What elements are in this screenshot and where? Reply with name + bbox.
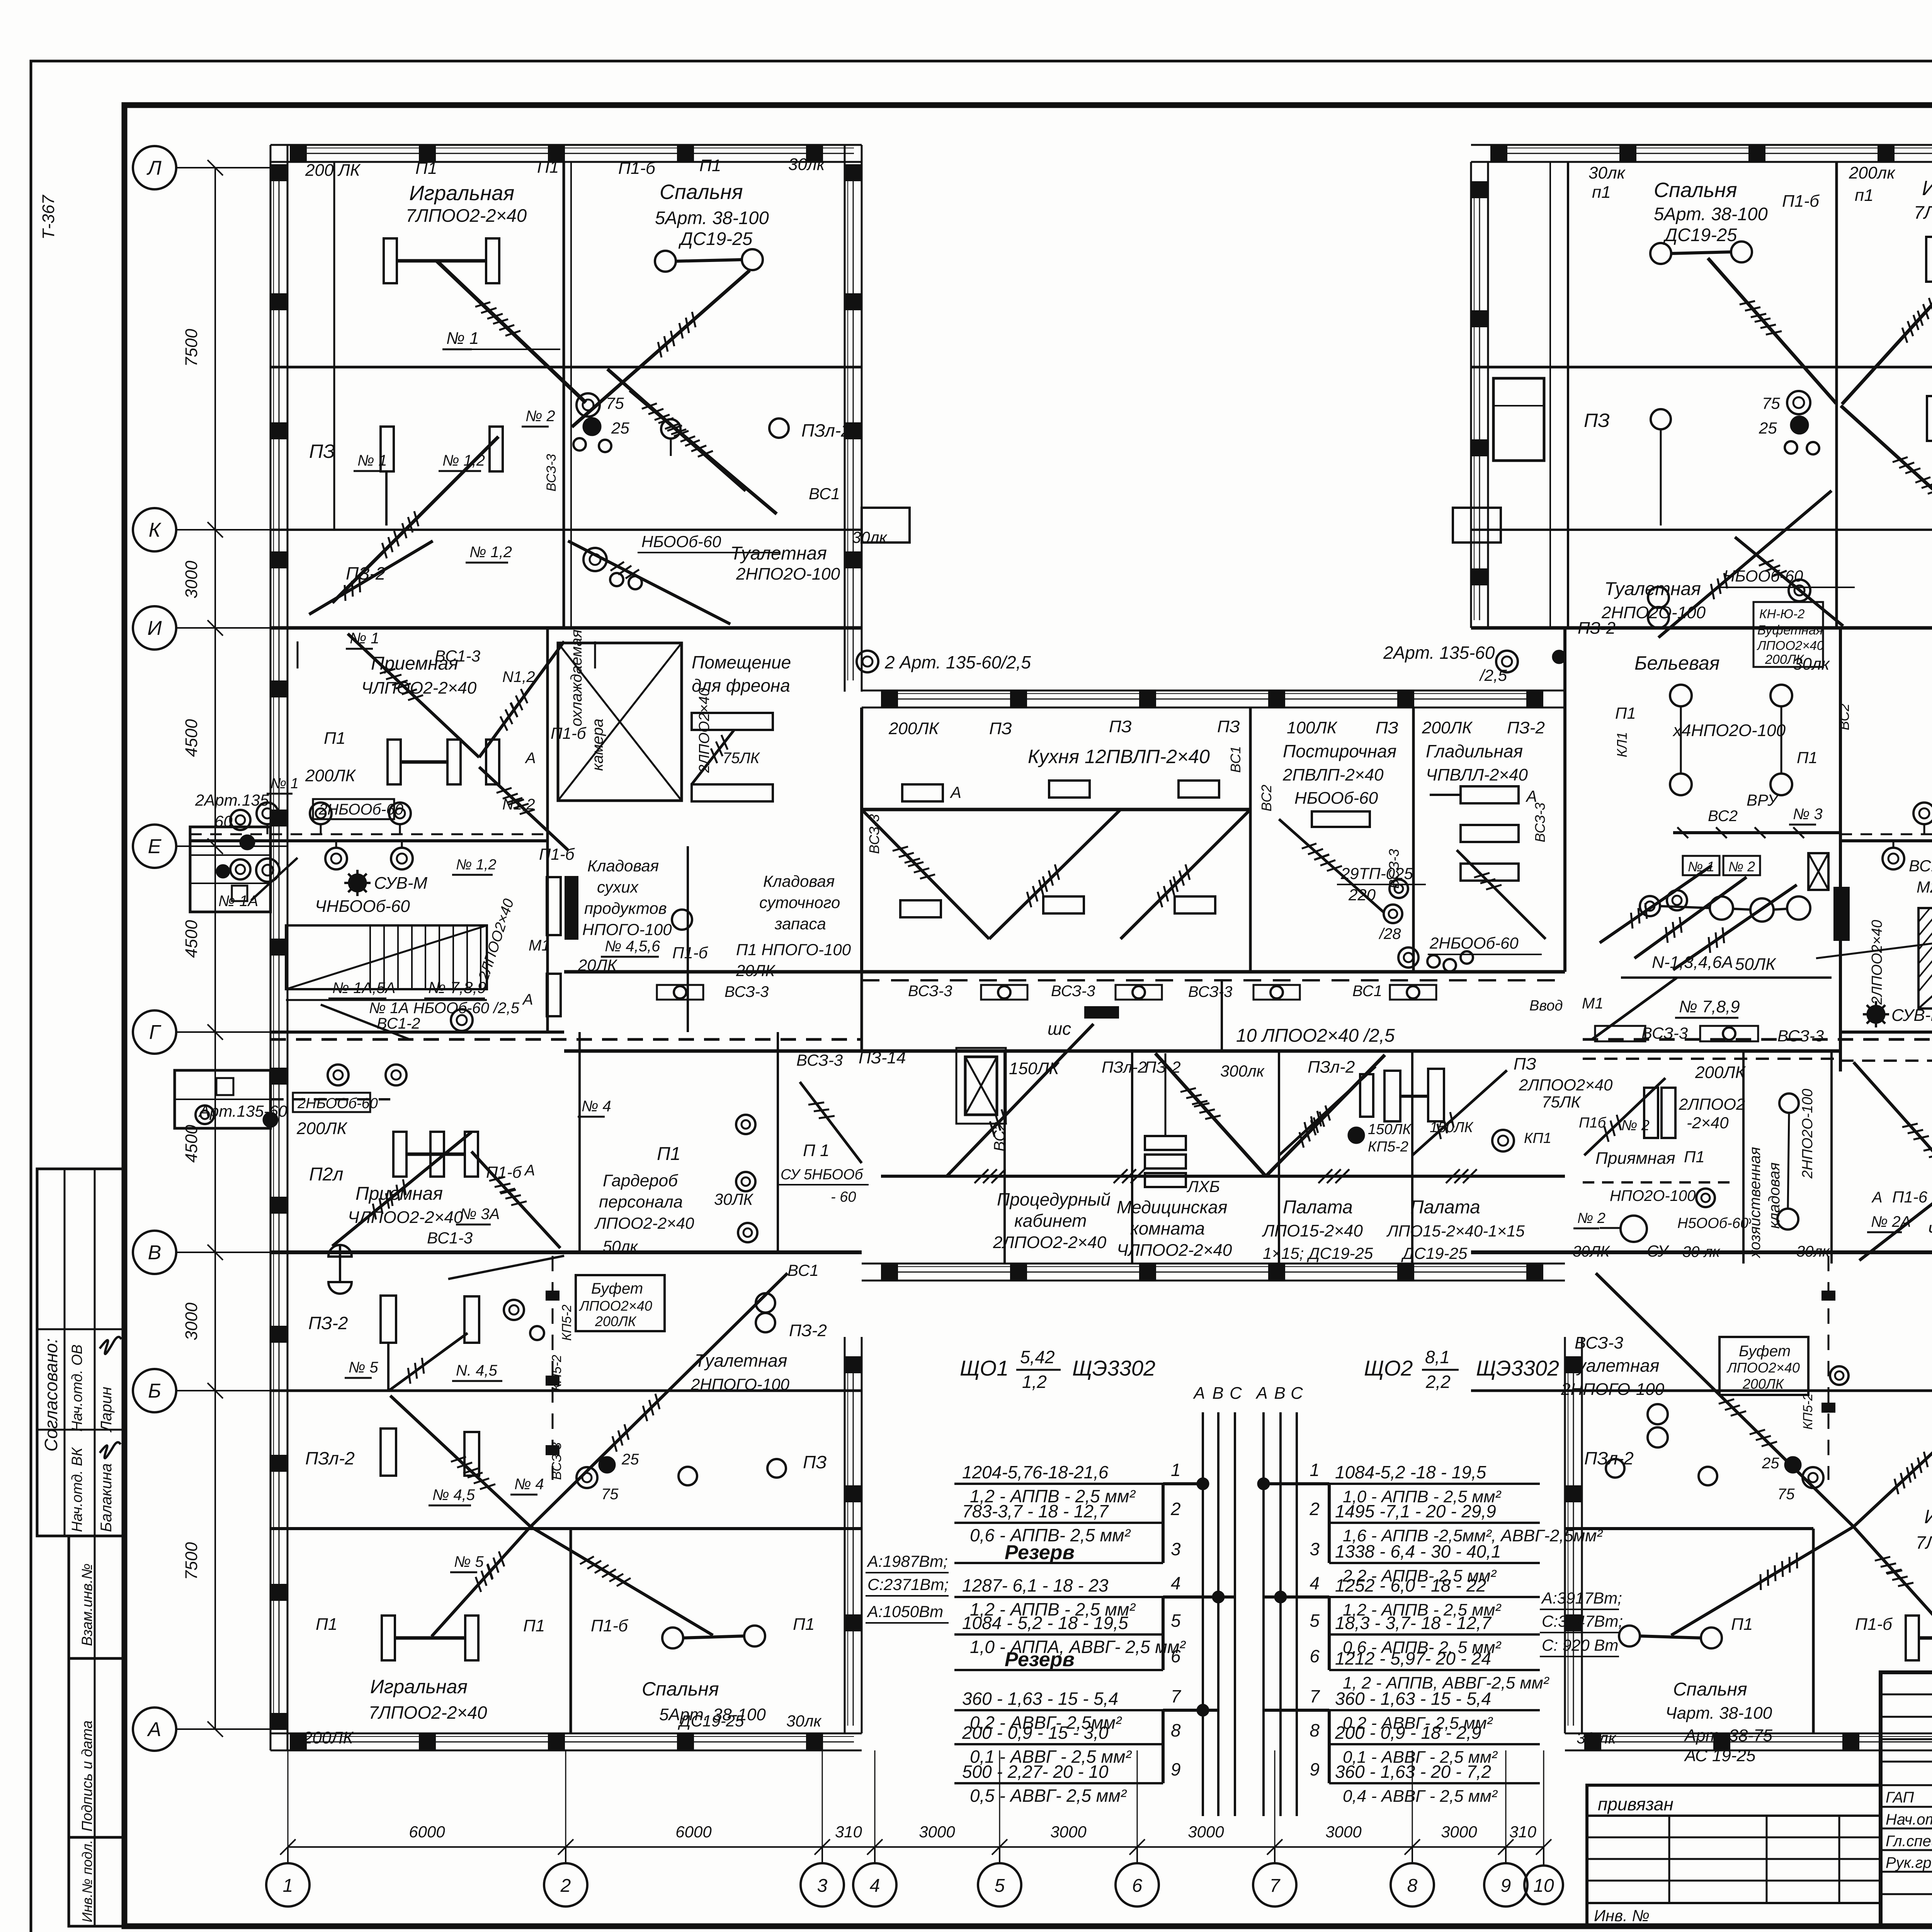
svg-text:25: 25 <box>1759 419 1777 437</box>
elektroshchitovaya room boxes N1 N2 <box>1683 856 1719 875</box>
wiring V В-Б left <box>388 1333 468 1391</box>
exterior wall left wing north <box>270 144 862 146</box>
svg-text:ВСЗ-3: ВСЗ-3 <box>724 983 769 1000</box>
svg-text:№ 2: № 2 <box>1728 859 1755 874</box>
svg-text:75ЛК: 75ЛК <box>723 750 760 767</box>
svg-text:4500: 4500 <box>182 1125 201 1163</box>
svg-text:ПЗл-2: ПЗл-2 <box>1102 1058 1147 1076</box>
svg-text:П1: П1 <box>699 156 721 175</box>
svg-text:200ЛК: 200ЛК <box>1422 718 1473 737</box>
lamps khoz vertical <box>1779 1094 1799 1113</box>
wiring row K left <box>568 541 730 624</box>
svg-text:№ 7,8,9: № 7,8,9 <box>428 978 486 997</box>
svg-text:Инв. №: Инв. № <box>1594 1906 1650 1925</box>
fixture pair Igralnaya bottom-left <box>382 1616 395 1660</box>
svg-text:С: С <box>1230 1384 1242 1403</box>
svg-text:ПЗл-2: ПЗл-2 <box>305 1448 355 1468</box>
partition lower center 2 <box>1278 1051 1280 1264</box>
svg-text:ВСЗ-3: ВСЗ-3 <box>908 983 952 1000</box>
svg-text:Помещение: Помещение <box>692 652 791 672</box>
svg-text:ПЗ: ПЗ <box>1376 718 1398 737</box>
svg-text:ПЗ-2: ПЗ-2 <box>1507 718 1545 737</box>
svg-text:Бельевая: Бельевая <box>1634 652 1720 674</box>
fixtures ПЗ-2 В-Б left <box>381 1296 396 1343</box>
corridor big diagonals <box>947 1024 1094 1176</box>
svg-text:Игральная: Игральная <box>1922 177 1932 200</box>
svg-text:30лк: 30лк <box>852 528 888 546</box>
svg-text:2НБООб-60: 2НБООб-60 <box>1429 934 1519 952</box>
svg-text:ВСЗ-3: ВСЗ-3 <box>796 1051 843 1069</box>
svg-text:П 1: П 1 <box>803 1141 830 1160</box>
buffet room <box>576 1275 665 1331</box>
svg-text:К: К <box>149 519 162 541</box>
svg-text:ПЗ-2: ПЗ-2 <box>1578 619 1616 638</box>
svg-text:8: 8 <box>1171 1720 1181 1740</box>
svg-text:1084 - 5,2 - 18 - 19,5: 1084 - 5,2 - 18 - 19,5 <box>962 1613 1128 1633</box>
svg-text:х4НПО2О-100: х4НПО2О-100 <box>1672 721 1786 740</box>
svg-text:Согласовано:: Согласовано: <box>41 1338 61 1451</box>
partition x1500 Г-В <box>578 1032 581 1252</box>
svg-text:А: А <box>524 1162 535 1179</box>
luminaire cluster 75-25 TL <box>577 393 600 417</box>
svg-text:П1-б: П1-б <box>618 159 656 178</box>
svg-text:Приямная: Приямная <box>1595 1149 1675 1168</box>
svg-text:ВС1-3: ВС1-3 <box>427 1229 473 1247</box>
svg-text:С: 920 Вт: С: 920 Вт <box>1542 1636 1618 1654</box>
svg-text:П1-б: П1-б <box>1855 1615 1893 1634</box>
svg-text:ПЗ-14: ПЗ-14 <box>859 1048 906 1067</box>
svg-text:1: 1 <box>1310 1460 1320 1480</box>
svg-text:С: С <box>1291 1384 1303 1403</box>
svg-text:2ЛПОО2-2×40: 2ЛПОО2-2×40 <box>993 1233 1107 1252</box>
svg-text:Гардероб: Гардероб <box>603 1171 679 1190</box>
wiring X Priyemnaya left <box>348 634 479 757</box>
stamp box Vzam inv <box>69 1536 124 1658</box>
svg-text:Гл.спец.: Гл.спец. <box>1886 1833 1932 1850</box>
svg-text:25: 25 <box>1762 1455 1779 1472</box>
svg-text:№ 1: № 1 <box>357 452 387 469</box>
svg-text:СУВ-М: СУВ-М <box>1891 1006 1932 1025</box>
svg-text:ЩО2: ЩО2 <box>1364 1356 1413 1380</box>
wiring dashed bus right wing <box>1840 1060 1932 1062</box>
svg-text:№ 2: № 2 <box>1577 1210 1605 1226</box>
axis row Е <box>133 825 176 868</box>
svg-text:Спальня: Спальня <box>1654 179 1737 202</box>
partition lower center 0 <box>1003 1051 1006 1264</box>
svg-text:2НПОГО-100: 2НПОГО-100 <box>690 1375 790 1393</box>
svg-text:ВС1: ВС1 <box>1228 746 1243 773</box>
svg-text:ЧЛПОО2-2×40: ЧЛПОО2-2×40 <box>361 679 477 697</box>
svg-text:50ЛК: 50ЛК <box>1735 955 1776 974</box>
exterior wall left wing east lower <box>844 1337 846 1733</box>
svg-text:№ 5: № 5 <box>349 1359 378 1376</box>
partition bottom wing right <box>1812 1529 1815 1733</box>
svg-text:2ЛПОО2×40: 2ЛПОО2×40 <box>1869 920 1885 1005</box>
svg-text:А: А <box>525 750 536 767</box>
svg-text:ВС1-3: ВС1-3 <box>435 647 480 665</box>
svg-text:продуктов: продуктов <box>584 899 667 917</box>
wall split row K left <box>563 530 565 628</box>
svg-text:ЛХБ: ЛХБ <box>1186 1177 1220 1196</box>
svg-text:30лк: 30лк <box>1588 163 1626 182</box>
svg-text:ВСЗ-3: ВСЗ-3 <box>1575 1333 1623 1352</box>
svg-text:18,3 - 3,7- 18 - 12,7: 18,3 - 3,7- 18 - 12,7 <box>1335 1613 1492 1633</box>
svg-text:20ЛК: 20ЛК <box>736 961 776 980</box>
svg-text:30ЛК: 30ЛК <box>1573 1243 1611 1260</box>
svg-text:2НПО2О-100: 2НПО2О-100 <box>736 565 840 583</box>
svg-text:1: 1 <box>1171 1460 1181 1480</box>
svg-text:№ 1А: № 1А <box>218 893 258 910</box>
svg-text:ЩЭ3302: ЩЭ3302 <box>1476 1356 1559 1380</box>
svg-text:2,2: 2,2 <box>1425 1372 1451 1392</box>
main wiring line lower centre <box>881 1175 1565 1178</box>
corridor bus line <box>862 979 1565 981</box>
wall axis Б <box>270 1389 862 1392</box>
svg-text:ЛПОО2×40: ЛПОО2×40 <box>1726 1360 1800 1376</box>
svg-text:Туалетная: Туалетная <box>1567 1355 1659 1376</box>
svg-text:30лк: 30лк <box>1793 655 1830 673</box>
svg-text:9: 9 <box>1171 1759 1181 1779</box>
wall axis Г <box>1840 1031 1932 1034</box>
svg-text:ДС19-25: ДС19-25 <box>678 1712 744 1730</box>
wiring diagonals elektroshchitovaya <box>1600 866 1712 943</box>
stamp box Podpis i data <box>69 1658 124 1837</box>
svg-text:П1-б: П1-б <box>1782 192 1820 211</box>
svg-text:камера: камера <box>589 719 606 771</box>
svg-text:№ 7,8,9: № 7,8,9 <box>1679 997 1740 1016</box>
svg-text:ПЗ: ПЗ <box>1514 1054 1536 1073</box>
svg-text:П1 НПОГО-100: П1 НПОГО-100 <box>736 940 851 959</box>
svg-text:5: 5 <box>995 1876 1005 1896</box>
svg-text:4: 4 <box>870 1876 880 1896</box>
divider double line <box>570 162 572 628</box>
svg-text:сухих: сухих <box>597 878 639 896</box>
svg-text:АС 19-25: АС 19-25 <box>1684 1746 1756 1765</box>
svg-text:310: 310 <box>835 1823 862 1841</box>
svg-text:П1: П1 <box>537 158 559 177</box>
laundry divider <box>1412 707 1415 972</box>
svg-text:2НПОГО-100: 2НПОГО-100 <box>1561 1380 1665 1399</box>
suv-m right <box>1867 1006 1884 1023</box>
svg-text:А:1050Вт: А:1050Вт <box>866 1602 943 1621</box>
svg-text:суточного: суточного <box>759 893 840 912</box>
svg-text:Чарт. 38-100: Чарт. 38-100 <box>1665 1704 1772 1723</box>
svg-text:привязан: привязан <box>1598 1794 1673 1814</box>
svg-text:А: А <box>1525 787 1537 805</box>
svg-text:1338 - 6,4 - 30 - 40,1: 1338 - 6,4 - 30 - 40,1 <box>1335 1541 1501 1561</box>
kitchen fixtures row2 <box>900 900 941 917</box>
partition bottom wings left <box>570 1529 572 1733</box>
vertical dimension line left <box>214 168 216 1729</box>
svg-text:ПЗ: ПЗ <box>803 1452 827 1472</box>
svg-text:360 - 1,63 - 20 - 7,2: 360 - 1,63 - 20 - 7,2 <box>1335 1762 1491 1782</box>
svg-text:ПЗ: ПЗ <box>1584 410 1610 431</box>
wall axis И <box>270 626 862 630</box>
svg-text:П1: П1 <box>523 1616 545 1635</box>
svg-text:ЛПОО2×40: ЛПОО2×40 <box>1757 638 1824 653</box>
svg-text:25: 25 <box>621 1451 639 1468</box>
svg-text:4: 4 <box>1171 1573 1181 1593</box>
svg-text:кабинет: кабинет <box>1014 1211 1087 1231</box>
wall right wing center vertical <box>1839 628 1842 1071</box>
svg-text:3: 3 <box>817 1876 828 1896</box>
wiring row K right <box>1735 537 1843 626</box>
kitchen wall right <box>1249 707 1252 972</box>
svg-text:9: 9 <box>1501 1876 1511 1896</box>
svg-text:1287- 6,1 - 18 - 23: 1287- 6,1 - 18 - 23 <box>962 1575 1109 1595</box>
svg-text:П1: П1 <box>324 729 345 748</box>
signature table <box>1881 1672 1932 1926</box>
corridor dark fixture <box>1084 1006 1119 1019</box>
svg-text:КН-Ю-2: КН-Ю-2 <box>1759 607 1804 621</box>
svg-text:Туалетная: Туалетная <box>695 1350 787 1371</box>
svg-text:№ 4,5,6: № 4,5,6 <box>605 938 660 955</box>
wall bottom wings upper y3956 right <box>1565 1527 1813 1530</box>
right wing inner west wall <box>1567 162 1569 628</box>
fixture pair right small <box>1644 1088 1658 1138</box>
svg-text:1×15; ДС19-25: 1×15; ДС19-25 <box>1263 1244 1373 1262</box>
svg-text:НБООб-60: НБООб-60 <box>1294 789 1378 808</box>
medical fixtures stack <box>1145 1136 1186 1150</box>
svg-text:30лк: 30лк <box>1796 1243 1830 1260</box>
svg-text:Игральная: Игральная <box>370 1676 468 1697</box>
svg-text:№ 1: № 1 <box>270 776 299 792</box>
svg-text:9: 9 <box>1310 1759 1320 1779</box>
svg-text:А: А <box>1255 1384 1267 1403</box>
svg-text:5Арт. 38-100: 5Арт. 38-100 <box>655 207 769 228</box>
svg-text:500 - 2,27- 20 - 10: 500 - 2,27- 20 - 10 <box>962 1762 1109 1782</box>
svg-text:2: 2 <box>560 1876 571 1896</box>
laundry fixture <box>1312 811 1370 827</box>
label 2Арт135-60/2,5 left center <box>857 651 878 672</box>
svg-text:150ЛК: 150ЛК <box>1009 1059 1060 1078</box>
svg-text:ЧПВЛЛ-2×40: ЧПВЛЛ-2×40 <box>1426 765 1528 784</box>
cold chamber box <box>558 643 682 801</box>
horizontal dimension line bottom <box>288 1846 1544 1848</box>
svg-text:25: 25 <box>611 419 629 437</box>
svg-text:- 60: - 60 <box>831 1189 856 1205</box>
svg-text:ПЗл-2: ПЗл-2 <box>801 420 851 440</box>
svg-text:7ЛПОО2-2×40: 7ЛПОО2-2×40 <box>1916 1532 1932 1553</box>
axis row Г <box>133 1010 176 1054</box>
svg-text:1084-5,2 -18 - 19,5: 1084-5,2 -18 - 19,5 <box>1335 1462 1486 1482</box>
svg-text:Буфет: Буфет <box>591 1280 643 1297</box>
porch west at axis Г <box>175 1070 270 1128</box>
svg-text:ЩО1: ЩО1 <box>960 1356 1009 1380</box>
svg-text:П1: П1 <box>1797 748 1818 767</box>
svg-text:кладовая: кладовая <box>1766 1162 1783 1229</box>
svg-text:2НПО2О-100: 2НПО2О-100 <box>1799 1089 1816 1179</box>
wiring diag priyamnaya <box>1584 1078 1665 1155</box>
axis column 10 <box>1524 1866 1563 1904</box>
svg-text:А:3917Вт;: А:3917Вт; <box>1541 1589 1622 1607</box>
bus row Г wall lamps <box>270 1098 390 1100</box>
КП5-2 riser dashed <box>552 1256 554 1480</box>
svg-text:Инв.№ подл.: Инв.№ подл. <box>79 1840 95 1922</box>
svg-text:5: 5 <box>1310 1611 1320 1631</box>
left attachment table <box>1587 1785 1881 1926</box>
cluster 25-75 bottom right <box>1785 1457 1801 1473</box>
stair right wing <box>1918 908 1932 1009</box>
svg-text:П1-б: П1-б <box>591 1616 629 1635</box>
svg-text:Игральная: Игральная <box>409 182 514 205</box>
stairwell left <box>286 925 487 989</box>
svg-text:С:2371Вт;: С:2371Вт; <box>867 1575 949 1594</box>
svg-text:ЛПОО2-2×40: ЛПОО2-2×40 <box>594 1214 694 1232</box>
leader to elektroshchitovaya note <box>1816 902 1932 958</box>
svg-text:Е: Е <box>148 835 162 858</box>
wall upper rooms partition <box>1471 366 1932 369</box>
svg-text:№ 3А: № 3А <box>460 1206 500 1223</box>
svg-text:200 ЛК: 200 ЛК <box>305 161 361 180</box>
exterior wall center south <box>862 1263 1565 1265</box>
svg-text:Рук.гр.: Рук.гр. <box>1886 1854 1932 1871</box>
svg-text:№ 2А: № 2А <box>1871 1213 1911 1230</box>
svg-text:60: 60 <box>214 812 233 830</box>
wall lamp above bus E left <box>257 803 278 824</box>
svg-text:В: В <box>1274 1384 1285 1403</box>
partition lower center 1 <box>1131 1051 1133 1264</box>
svg-text:№ 4: № 4 <box>582 1098 611 1115</box>
svg-text:Приемная: Приемная <box>355 1184 443 1204</box>
luminaire pair Igralnaya top-right <box>1926 237 1932 282</box>
svg-text:Палата: Палата <box>1283 1197 1353 1218</box>
svg-text:ВСЗ-3: ВСЗ-3 <box>1532 803 1548 842</box>
svg-text:П1-б: П1-б <box>551 724 587 742</box>
svg-text:2: 2 <box>1309 1499 1320 1519</box>
luminaire fixtures Priyemnaya left <box>388 740 401 784</box>
svg-text:ДС19-25: ДС19-25 <box>1663 224 1737 245</box>
svg-text:запаса: запаса <box>774 915 826 933</box>
svg-text:200ЛК: 200ЛК <box>296 1119 348 1138</box>
svg-text:8: 8 <box>1310 1720 1320 1740</box>
fixture pair row Г-В left <box>393 1132 406 1177</box>
svg-text:30 лк: 30 лк <box>1577 1729 1617 1747</box>
svg-text:КП5-2: КП5-2 <box>560 1304 574 1341</box>
wall axis Г <box>270 1031 564 1034</box>
svg-text:М2: М2 <box>1917 878 1932 896</box>
svg-text:М1: М1 <box>529 937 550 954</box>
svg-text:3: 3 <box>1310 1539 1320 1559</box>
axis column 7 <box>1253 1863 1296 1906</box>
svg-text:4500: 4500 <box>182 920 201 958</box>
palata1 fixtures <box>1384 1071 1400 1121</box>
kitchen bus diagonal <box>862 808 1250 811</box>
svg-text:30лк: 30лк <box>786 1712 822 1730</box>
lamps Spalnya bottom-right <box>1619 1626 1640 1646</box>
svg-text:4500: 4500 <box>182 719 201 757</box>
fuse box with X right <box>1808 853 1828 890</box>
svg-text:Медицинская: Медицинская <box>1117 1197 1227 1217</box>
axis column 2 <box>544 1863 587 1906</box>
corridor fixture rects near М1 <box>547 877 561 935</box>
svg-text:КП5-2: КП5-2 <box>549 1355 564 1391</box>
svg-text:2Арт.135: 2Арт.135 <box>195 791 269 809</box>
svg-text:ВСЗ-3: ВСЗ-3 <box>1641 1024 1688 1042</box>
axis column 3 <box>801 1863 844 1906</box>
partition Spalnya-Igralnaya top-right <box>1835 162 1838 628</box>
wall axis В <box>1471 1250 1932 1254</box>
partition lower center 3 <box>1411 1051 1413 1264</box>
svg-text:№ 4: № 4 <box>514 1476 544 1493</box>
lamps Spalnya top-right <box>1650 243 1671 264</box>
svg-text:4: 4 <box>1310 1573 1320 1593</box>
svg-text:3000: 3000 <box>182 561 201 599</box>
svg-text:Резерв: Резерв <box>1005 1648 1075 1671</box>
svg-text:150ЛК: 150ЛК <box>1368 1121 1412 1138</box>
wiring X bottom left junction <box>390 1396 531 1527</box>
elevator shaft <box>965 1057 997 1115</box>
wall bottom wings upper y3956 <box>270 1527 862 1530</box>
wall axis Б <box>1471 1389 1932 1392</box>
svg-text:1204-5,76-18-21,6: 1204-5,76-18-21,6 <box>962 1462 1109 1482</box>
svg-text:1212 - 5,97- 20 - 24: 1212 - 5,97- 20 - 24 <box>1335 1648 1491 1668</box>
stamp box Inv No podl <box>69 1837 124 1926</box>
wiring X Spalnya TR <box>1708 258 1836 403</box>
svg-text:300лк: 300лк <box>1220 1062 1265 1080</box>
svg-text:2 Арт. 135-60/2,5: 2 Арт. 135-60/2,5 <box>884 652 1031 672</box>
svg-text:А: А <box>147 1718 162 1741</box>
wiring Tualetnaya BL diagonal <box>448 1256 564 1279</box>
svg-text:Ввод: Ввод <box>1529 998 1563 1014</box>
svg-text:ЧНБООб-60: ЧНБООб-60 <box>315 897 410 916</box>
partition Igralnaya-Spalnya top-left <box>563 162 565 628</box>
wall lamp above bus E left <box>310 803 332 824</box>
courtyard porch box left <box>862 508 910 543</box>
svg-text:ВС2: ВС2 <box>1259 785 1274 811</box>
svg-text:30 лк: 30 лк <box>1682 1243 1721 1260</box>
svg-text:200ЛК: 200ЛК <box>595 1313 637 1329</box>
wiring diagonal Igralnaya TR <box>1842 262 1932 404</box>
svg-text:Процедурный: Процедурный <box>997 1189 1111 1209</box>
svg-text:ПЗл-2: ПЗл-2 <box>1584 1448 1634 1468</box>
fixtures ПЗл-2 row left <box>381 1429 396 1476</box>
svg-text:30ЛК: 30ЛК <box>714 1190 754 1208</box>
svg-text:Спальня: Спальня <box>642 1678 719 1700</box>
svg-text:ПЗ: ПЗ <box>309 440 335 462</box>
svg-text:П1: П1 <box>1684 1148 1705 1166</box>
svg-text:ЧЛПОО2-2×40: ЧЛПОО2-2×40 <box>1117 1241 1232 1260</box>
svg-text:А: А <box>1871 1189 1883 1206</box>
buffetnaya box right <box>1753 602 1823 667</box>
wiring diagonal Igralnaya TL <box>437 261 586 403</box>
svg-text:5Арт. 38-100: 5Арт. 38-100 <box>1654 204 1768 224</box>
fixtures row 2 left <box>381 427 394 471</box>
axis row В <box>133 1231 176 1274</box>
svg-text:Буфетная: Буфетная <box>1757 623 1823 638</box>
svg-text:30лк: 30лк <box>788 155 826 174</box>
svg-text:200ЛК: 200ЛК <box>303 1728 354 1747</box>
svg-text:п1: п1 <box>1855 186 1874 205</box>
fixture freon <box>692 713 773 730</box>
svg-text:НПОГО-100: НПОГО-100 <box>582 920 672 939</box>
svg-text:№ 2: № 2 <box>526 408 555 425</box>
svg-text:Б: Б <box>148 1380 161 1402</box>
svg-text:ДС19-25: ДС19-25 <box>1401 1244 1468 1262</box>
Belyevaya lamps grid <box>1670 685 1692 706</box>
svg-text:7500: 7500 <box>182 1542 201 1580</box>
lamps Spalnya bottom-left <box>662 1628 683 1648</box>
svg-text:2ПВЛП-2×40: 2ПВЛП-2×40 <box>1282 765 1384 784</box>
exterior wall right wing west upper <box>1470 162 1472 628</box>
svg-text:3000: 3000 <box>919 1823 955 1841</box>
fixture pair Igralnaya bottom-right <box>1906 1616 1919 1660</box>
svg-text:П1: П1 <box>316 1615 337 1634</box>
svg-text:Гладильная: Гладильная <box>1426 741 1523 761</box>
svg-text:360 - 1,63 - 15 - 5,4: 360 - 1,63 - 15 - 5,4 <box>1335 1689 1491 1709</box>
wiring X bottom right junction <box>1854 1396 1932 1527</box>
axis column 5 <box>978 1863 1021 1906</box>
